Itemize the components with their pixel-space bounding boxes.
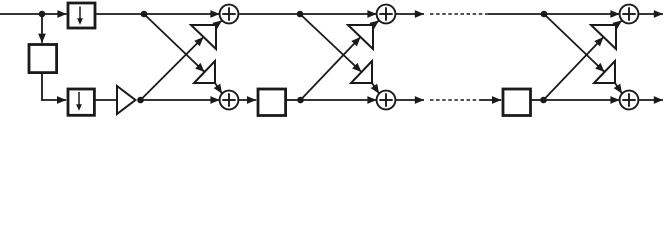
node top junction stage3 [541,11,548,18]
wire top rail resume to stage3 [488,13,544,15]
downsampler box D2 [68,89,94,115]
wire S2t output arrow [395,13,424,15]
wire Z2 output to node [287,99,301,101]
wire bottom rail into adder S2b [301,99,377,101]
wire S1b into delay Z2 [238,99,256,101]
adder S1b [220,91,239,110]
gain triangle G1b lower [194,61,215,83]
gain triangle G3b lower [594,61,615,83]
wire G1b output into adder S1b [215,83,222,94]
wire D2 output to amp T0 [95,99,117,101]
node B bottom junction stage1 [137,97,144,104]
wire cross diagonal up stage1 [141,37,204,100]
wire output top [638,13,663,15]
wire cross diagonal down stage2 [300,14,362,72]
down-arrow symbol inside D2 [78,92,80,106]
node bottom junction stage2 [297,97,304,104]
wire cross diagonal up stage2 [301,37,361,100]
gain triangle G3a upper [591,25,616,49]
wire dotted continuation top [430,13,488,15]
wire cross diagonal down stage1 [144,14,205,72]
node top junction stage2 [297,11,304,18]
wire Z1 output to downsampler D2 [42,74,66,101]
wire top rail into adder S2t [300,13,377,15]
delay box Z3 [503,89,531,116]
gain triangle G2b lower [351,61,372,83]
wire Z3 output to node [532,99,545,101]
wire G1a output into adder S1t [216,20,222,25]
amplifier T0 [117,86,136,114]
node top junction stage1 [141,11,148,18]
wire cross diagonal up stage3 [544,37,604,100]
wire S2b output arrow [395,99,424,101]
wire branch down to delay Z1 [41,14,43,43]
adder S2t [377,5,396,24]
wire bottom rail into adder S3b [544,99,620,101]
wire output bottom [638,99,663,101]
wire dotted continuation bottom [430,99,480,101]
wire D1 output to node A [96,13,144,15]
wire G2b output into adder S2b [372,83,379,94]
adder S2b [377,91,396,110]
adder S3t [620,5,639,24]
down-arrow symbol inside D1 [79,7,81,20]
delay box Z1 [29,45,57,73]
downsampler box D1 [68,3,95,28]
wire G3b output into adder S3b [615,83,622,94]
node input branch junction [39,11,46,18]
delay box Z2 [258,89,286,116]
wire bottom rail into adder S1b [141,99,220,101]
wire G3a output into adder S3t [616,20,622,25]
adder S1t [220,5,239,24]
gain triangle G2a upper [348,25,373,49]
wire G2a output into adder S2t [373,20,379,25]
gain triangle G1a upper [191,25,216,49]
wire top rail S1t to stage2 [238,13,300,15]
node bottom junction stage3 [540,97,547,104]
wire cross diagonal down stage3 [544,14,605,72]
wire top rail into adder S1t [144,13,220,15]
wire top rail into adder S3t [544,13,620,15]
wire input top rail [0,13,67,15]
adder S3b [620,91,639,110]
wire bottom resume into delay Z3 [480,99,501,101]
